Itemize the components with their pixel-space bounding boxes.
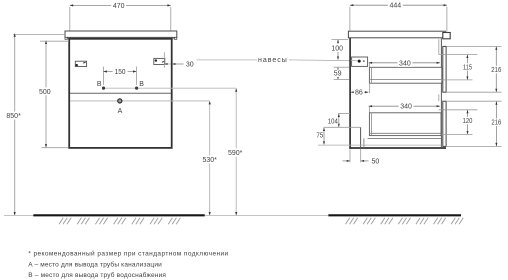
svg-text:470: 470 [113, 3, 125, 10]
svg-text:216: 216 [491, 67, 501, 74]
svg-text:A – место для вывода трубы кан: A – место для вывода трубы канализации [28, 260, 162, 268]
countertop side view [348, 31, 450, 39]
extension line right bracket [163, 52, 165, 68]
svg-text:навесы: навесы [258, 57, 288, 64]
floor thick line left [33, 214, 204, 216]
svg-text:150: 150 [115, 69, 126, 76]
svg-text:216: 216 [491, 120, 501, 127]
hinge bracket side view [351, 57, 368, 66]
svg-text:B – место для вывода труб водо: B – место для вывода труб водоснабжения [28, 271, 166, 279]
svg-text:75: 75 [316, 133, 323, 140]
dimension 340 drawer 1 [369, 59, 440, 68]
floor thick line right [328, 214, 461, 216]
svg-text:115: 115 [463, 64, 472, 71]
node A line [70, 100, 210, 102]
dimension 500 [38, 41, 70, 148]
dimension 104 [327, 114, 350, 127]
carcass right edge side view [440, 39, 442, 148]
dimension 216 drawer 2 [447, 101, 503, 146]
drawer 1 front side view [443, 46, 446, 92]
svg-text:B: B [139, 81, 144, 88]
cabinet bottom side view [349, 147, 446, 149]
dimension 115 [439, 55, 478, 80]
dimension 470 [70, 1, 171, 30]
cabinet top edge line [67, 38, 174, 40]
svg-text:50: 50 [372, 159, 380, 166]
node B dot left [102, 87, 105, 90]
floor thin line [4, 215, 461, 217]
drawer 2 box side view [369, 113, 441, 136]
dimension 30 [164, 61, 193, 68]
svg-text:A: A [118, 108, 123, 115]
cabinet body front view [69, 39, 172, 148]
svg-text:530*: 530* [202, 157, 217, 164]
svg-text:59: 59 [334, 71, 342, 78]
svg-text:86: 86 [355, 89, 363, 96]
svg-text:500: 500 [39, 89, 51, 96]
svg-text:100: 100 [331, 46, 343, 53]
svg-text:590*: 590* [228, 150, 243, 157]
node A dot [118, 99, 122, 103]
drawer 2 front side view [443, 101, 446, 146]
svg-text:104: 104 [328, 119, 338, 126]
svg-text:340: 340 [399, 60, 411, 67]
dimension 216 drawer 1 [447, 46, 503, 92]
svg-text:444: 444 [389, 3, 401, 10]
dimension 100 [330, 39, 348, 59]
drawer 2 box top extension [368, 106, 370, 113]
divider line between drawers front view [70, 92, 171, 94]
dimension 50 [343, 149, 380, 166]
drawer rail side view [364, 138, 441, 148]
dimension 86 [351, 88, 368, 96]
cabinet left edge side view [349, 38, 351, 149]
svg-text:850*: 850* [6, 113, 21, 120]
carcass front edge upper segment [438, 39, 440, 54]
dimension 590* [226, 88, 245, 215]
floor hatching right [346, 218, 464, 225]
dimension 530* [201, 101, 220, 215]
svg-text:B: B [97, 81, 102, 88]
svg-text:120: 120 [463, 118, 473, 125]
svg-text:30: 30 [186, 61, 194, 68]
mounting bracket left [75, 61, 86, 66]
notch top line and 104/75 extension [324, 126, 361, 128]
dimension 444 [350, 1, 447, 32]
dimension 75 [316, 128, 325, 145]
countertop front view [65, 31, 177, 39]
svg-text:* рекомендованный размер при с: * рекомендованный размер при стандартном… [28, 250, 228, 258]
carcass front edge gap segment [438, 94, 440, 101]
drawer 1 box extension [368, 83, 370, 93]
mounting bracket right [154, 58, 165, 64]
dimension 150 [103, 67, 136, 86]
dimension 340 drawer 2 [369, 102, 440, 111]
floor hatching left [59, 218, 180, 225]
node B line [104, 87, 237, 89]
dimension 59 [333, 67, 349, 79]
svg-text:340: 340 [400, 104, 412, 111]
dimension 120 [439, 110, 478, 135]
node B dot right [135, 87, 138, 90]
notch vertical line [360, 127, 362, 148]
drawer 1 box top extension [368, 63, 370, 68]
dimension 850* [5, 33, 66, 215]
drawer 1 box side view [369, 67, 441, 83]
cabinet inner bottom line [318, 144, 441, 146]
leader line навесы [197, 57, 359, 64]
